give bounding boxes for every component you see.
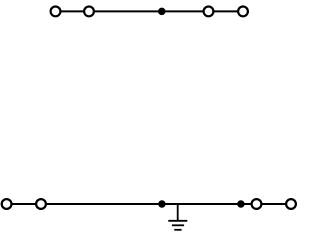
terminal circle upper 1: [51, 6, 61, 16]
terminal circle upper 2: [84, 6, 94, 16]
ground: [168, 204, 187, 230]
terminal circle upper 3: [204, 6, 214, 16]
wire lower rail: [7, 203, 291, 205]
terminal circle lower 1: [2, 199, 12, 209]
wire upper rail: [56, 10, 244, 12]
terminal circle lower 3: [252, 199, 262, 209]
terminal circle lower 4: [286, 199, 296, 209]
terminal circle upper 4: [238, 6, 248, 16]
terminal circle lower 2: [36, 199, 46, 209]
junction dot lower left: [158, 200, 166, 208]
junction dot lower right: [237, 200, 245, 208]
junction dot upper: [158, 8, 166, 16]
